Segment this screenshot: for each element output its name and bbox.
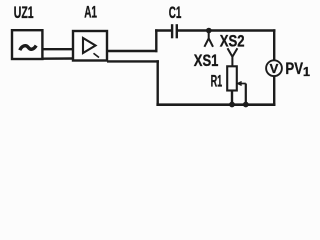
socket XS1 symbol — [204, 31, 213, 47]
wire bottom rail — [156, 103, 275, 106]
wire top rail left segment — [155, 29, 171, 32]
svg-text:XS1: XS1 — [194, 51, 219, 70]
svg-text:V: V — [270, 61, 279, 76]
wire PV1 top lead — [273, 29, 275, 60]
svg-text:PV: PV — [285, 59, 303, 78]
wire UZ1 to A1 (upper) — [43, 48, 74, 50]
wire A1 to bottom riser (lower) — [107, 60, 159, 62]
plug XS2 symbol — [228, 48, 238, 66]
wiper arrow of R1 — [237, 81, 246, 104]
node junction dot at XS1 — [206, 28, 212, 34]
wire top rail right segment — [178, 29, 276, 32]
wire riser up to top rail — [155, 29, 157, 52]
svg-text:XS2: XS2 — [220, 31, 245, 50]
node junction dot R1 bottom — [229, 102, 235, 108]
wire riser down to bottom rail — [156, 60, 158, 105]
AC tilde symbol inside UZ1 — [20, 46, 36, 51]
wire UZ1 to A1 (lower) — [43, 57, 74, 60]
amplifier triangle inside A1 — [83, 38, 96, 53]
node junction dot wiper to rail — [243, 102, 249, 108]
svg-text:R1: R1 — [211, 72, 223, 91]
svg-text:1: 1 — [303, 65, 310, 79]
svg-text:C1: C1 — [169, 4, 182, 22]
scan tick mark near triangle tip — [94, 53, 100, 57]
rectifier/source block UZ1 — [12, 30, 42, 59]
wire PV1 bottom lead — [273, 76, 275, 106]
voltmeter PV1 circle — [266, 60, 282, 76]
amplifier block A1 — [73, 31, 107, 61]
wire R1 bottom lead — [231, 91, 233, 105]
resistor R1 (potentiometer) — [227, 66, 237, 90]
wire A1 to C1 riser (upper) — [107, 50, 158, 52]
svg-text:A1: A1 — [84, 4, 97, 22]
capacitor C1 plates — [171, 24, 173, 38]
svg-text:UZ1: UZ1 — [14, 4, 34, 22]
